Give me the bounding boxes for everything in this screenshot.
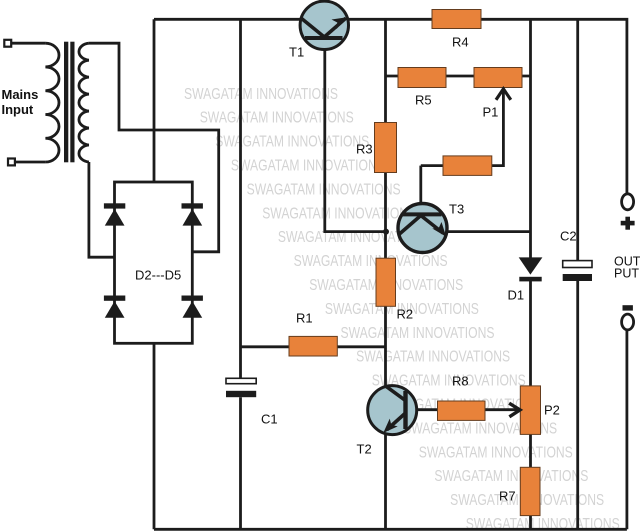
svg-text:SWAGATAM INNOVATIONS: SWAGATAM INNOVATIONS	[419, 444, 573, 461]
svg-text:C1: C1	[261, 412, 278, 427]
svg-text:SWAGATAM INNOVATIONS: SWAGATAM INNOVATIONS	[231, 158, 385, 175]
svg-text:SWAGATAM INNOVATIONS: SWAGATAM INNOVATIONS	[184, 86, 338, 103]
svg-text:D2---D5: D2---D5	[135, 268, 181, 283]
svg-text:P2: P2	[544, 403, 560, 418]
svg-text:D1: D1	[508, 288, 525, 303]
svg-text:C2: C2	[560, 229, 577, 244]
svg-text:P1: P1	[483, 104, 499, 119]
svg-text:T2: T2	[357, 442, 372, 457]
svg-text:SWAGATAM INNOVATIONS: SWAGATAM INNOVATIONS	[200, 110, 354, 127]
svg-text:SWAGATAM INNOVATIONS: SWAGATAM INNOVATIONS	[434, 468, 588, 485]
svg-text:R5: R5	[415, 93, 432, 108]
svg-text:Mains: Mains	[2, 87, 39, 102]
svg-text:SWAGATAM INNOVATIONS: SWAGATAM INNOVATIONS	[215, 134, 369, 151]
svg-text:R4: R4	[452, 35, 469, 50]
svg-text:T3: T3	[449, 202, 464, 217]
svg-text:R7: R7	[499, 489, 516, 504]
svg-text:SWAGATAM INNOVATIONS: SWAGATAM INNOVATIONS	[341, 325, 495, 342]
svg-text:R1: R1	[296, 311, 313, 326]
svg-text:PUT: PUT	[614, 266, 639, 280]
svg-text:SWAGATAM INNOVATIONS: SWAGATAM INNOVATIONS	[294, 253, 448, 270]
svg-text:SWAGATAM INNOVATIONS: SWAGATAM INNOVATIONS	[356, 349, 510, 366]
svg-text:Input: Input	[2, 102, 34, 117]
svg-text:R2: R2	[397, 307, 414, 322]
svg-text:SWAGATAM INNOVATIONS: SWAGATAM INNOVATIONS	[262, 205, 416, 222]
svg-text:T1: T1	[289, 45, 304, 60]
svg-text:R8: R8	[452, 374, 469, 389]
svg-text:R3: R3	[356, 142, 373, 157]
